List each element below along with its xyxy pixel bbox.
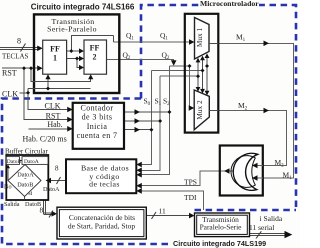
svg-text:Salida: Salida [4, 201, 20, 208]
svg-text:Paralelo-Serie: Paralelo-Serie [200, 223, 243, 232]
svg-text:Mux 2: Mux 2 [195, 100, 204, 120]
svg-text:8: 8 [55, 165, 59, 173]
svg-text:Circuito integrado 74LS199: Circuito integrado 74LS199 [173, 239, 266, 248]
svg-text:RST: RST [2, 69, 17, 78]
svg-text:Serie-Paralelo: Serie-Paralelo [47, 25, 97, 34]
svg-text:8: 8 [17, 37, 21, 46]
svg-text:TDI: TDI [184, 193, 197, 202]
svg-text:Contador: Contador [81, 104, 114, 113]
svg-text:11 serial: 11 serial [249, 223, 274, 232]
svg-text:2: 2 [93, 53, 97, 62]
svg-text:DatoA: DatoA [24, 159, 39, 165]
svg-text:DatoB: DatoB [25, 201, 41, 208]
svg-text:de Start, Paridad, Stop: de Start, Paridad, Stop [68, 221, 136, 230]
svg-text:DatoB: DatoB [17, 182, 33, 189]
svg-text:FF: FF [50, 45, 60, 54]
svg-text:1: 1 [53, 54, 57, 63]
svg-text:DatoB: DatoB [7, 159, 22, 165]
svg-text:Circuito integrado 74LS166: Circuito integrado 74LS166 [31, 3, 135, 12]
svg-text:Microcontrolador: Microcontrolador [200, 0, 259, 8]
svg-text:FF: FF [90, 44, 100, 53]
svg-text:=: = [24, 176, 27, 181]
svg-text:de 3 bits: de 3 bits [82, 113, 113, 122]
svg-text:cuenta en 7: cuenta en 7 [77, 131, 118, 140]
svg-text:Hab. C/20 ms: Hab. C/20 ms [23, 135, 67, 144]
svg-text:TPS: TPS [184, 178, 197, 187]
svg-text:TECLAS: TECLAS [2, 53, 29, 61]
svg-text:11: 11 [159, 207, 166, 216]
svg-text:No: No [4, 183, 12, 190]
svg-text:DatoA: DatoA [43, 186, 60, 193]
svg-text:Inicia: Inicia [87, 122, 108, 131]
svg-text:Buffer Circular: Buffer Circular [5, 148, 48, 156]
svg-text:CLK: CLK [45, 102, 61, 111]
svg-text:Hab.: Hab. [47, 120, 62, 129]
svg-text:CLK: CLK [2, 90, 18, 99]
svg-text:Mux 1: Mux 1 [195, 28, 204, 48]
svg-text:de teclas: de teclas [89, 179, 120, 188]
